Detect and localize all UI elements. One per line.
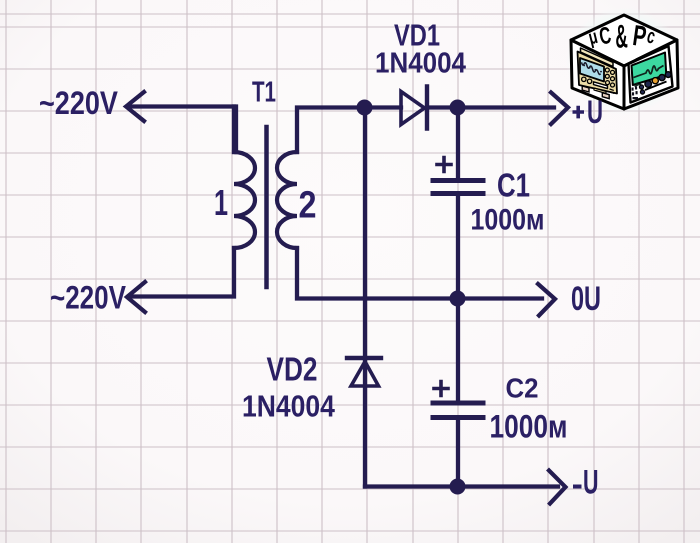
svg-text:C1: C1 bbox=[497, 168, 530, 205]
logo oscilloscope screen bbox=[580, 58, 604, 82]
logo oscilloscope wave dots bbox=[583, 65, 602, 73]
logo cube top face bbox=[571, 15, 677, 66]
diode VD2 cathode bar bbox=[347, 356, 381, 360]
capacitor C2 plus sign bbox=[434, 382, 448, 396]
logo: uC & Pc isometric cube emblem bbox=[566, 7, 682, 115]
logo oscilloscope dashes bbox=[610, 89, 615, 93]
junction node D (-U rail / C2 branch) bbox=[450, 479, 466, 495]
svg-text:VD2: VD2 bbox=[267, 352, 318, 389]
transformer T1 secondary winding arcs bbox=[277, 152, 297, 248]
wire: bottom-left AC input from arrow to T1 primary bottom bbox=[129, 248, 234, 297]
logo monitor dip marks bbox=[632, 86, 639, 99]
wire: top rail from node A to VD1 anode bbox=[364, 105, 401, 109]
arrow: -U output arrowhead bbox=[549, 471, 566, 504]
wire: 0U rail from C1 node to 0U arrow bbox=[456, 296, 542, 300]
capacitor C2 top plate bbox=[433, 401, 483, 406]
logo monitor panel (right face) bbox=[629, 46, 673, 103]
junction node B (top rail / C1 branch) bbox=[450, 100, 466, 116]
net label -U dash bbox=[573, 485, 582, 489]
wire: -U rail from VD2 branch to -U arrow bbox=[365, 484, 558, 488]
logo top text uC & Pc bbox=[586, 17, 658, 55]
svg-text:1000м: 1000м bbox=[471, 202, 545, 236]
junction node C (0U rail / C2 branch) bbox=[450, 291, 466, 307]
logo monitor waveform bbox=[634, 66, 664, 78]
logo monitor small knobs left bbox=[639, 85, 644, 94]
svg-text:U: U bbox=[583, 464, 598, 502]
wire: top-left AC input from arrow to T1 primary top bbox=[128, 107, 236, 153]
wire: C2 branch top bbox=[456, 299, 460, 401]
diode VD1 cathode bar bbox=[425, 87, 429, 129]
transformer T1 secondary winding stem top bbox=[297, 108, 364, 153]
svg-text:1000м: 1000м bbox=[490, 409, 568, 445]
logo oscilloscope knobs below screen bbox=[582, 77, 592, 83]
logo monitor screen baseline marks bbox=[635, 82, 642, 86]
wire: C1 branch top bbox=[456, 108, 460, 179]
svg-text:1: 1 bbox=[214, 183, 228, 224]
wire: VD1 cathode to +U arrow bbox=[427, 105, 554, 109]
capacitor C2 bottom plate bbox=[433, 415, 483, 420]
wire: C2 branch bottom bbox=[456, 420, 460, 487]
wire: C1 branch bottom bbox=[456, 196, 460, 299]
arrow: bottom-left input arrowhead bbox=[127, 282, 145, 312]
logo monitor bar below buttons bbox=[645, 82, 667, 91]
wire: vertical branch from node A down through VD2 to -U rail bbox=[363, 108, 367, 487]
diode VD2 triangle bbox=[351, 362, 379, 387]
logo oscilloscope lower slot bbox=[594, 88, 606, 93]
svg-text:~220V: ~220V bbox=[39, 86, 118, 122]
svg-text:0U: 0U bbox=[571, 281, 601, 318]
logo monitor buttons row bbox=[645, 72, 671, 88]
svg-text:U: U bbox=[587, 94, 603, 130]
logo oscilloscope body (left face) bbox=[578, 52, 618, 94]
logo oscilloscope feet bbox=[582, 86, 589, 92]
diode VD1 triangle bbox=[401, 92, 425, 125]
capacitor C1 plus sign bbox=[437, 158, 451, 172]
transformer T1 core bbox=[264, 127, 269, 287]
logo oscilloscope slot bbox=[594, 82, 608, 89]
logo oscilloscope knobs right column bbox=[605, 68, 614, 87]
svg-text:T1: T1 bbox=[252, 76, 276, 108]
wire: T1 secondary bottom to 0U rail bbox=[297, 248, 456, 299]
svg-text:2: 2 bbox=[299, 184, 317, 226]
svg-text:1N4004: 1N4004 bbox=[242, 390, 335, 424]
logo glow bbox=[566, 7, 682, 115]
svg-text:1N4004: 1N4004 bbox=[375, 46, 467, 79]
arrow: +U output arrowhead bbox=[551, 93, 568, 125]
logo oscilloscope top bezel bbox=[581, 48, 614, 67]
svg-text:C2: C2 bbox=[506, 373, 539, 404]
transformer T1 primary winding arcs bbox=[234, 152, 255, 248]
transformer T1 primary winding stem top bbox=[232, 107, 236, 153]
capacitor C1 top plate bbox=[433, 178, 483, 183]
arrow: top-left input arrowhead bbox=[126, 92, 144, 121]
junction node A (top rail / VD2 branch) bbox=[357, 100, 373, 116]
svg-text:&: & bbox=[615, 17, 629, 55]
logo monitor screen bbox=[632, 53, 667, 86]
logo cube left face bbox=[571, 40, 624, 109]
svg-text:~220V: ~220V bbox=[50, 281, 126, 316]
arrow: 0U output arrowhead bbox=[538, 284, 555, 316]
capacitor C1 bottom plate bbox=[433, 191, 483, 196]
logo oscilloscope waveform bbox=[582, 62, 601, 74]
net label +U plus sign bbox=[573, 106, 585, 119]
logo cube right face bbox=[624, 40, 678, 109]
